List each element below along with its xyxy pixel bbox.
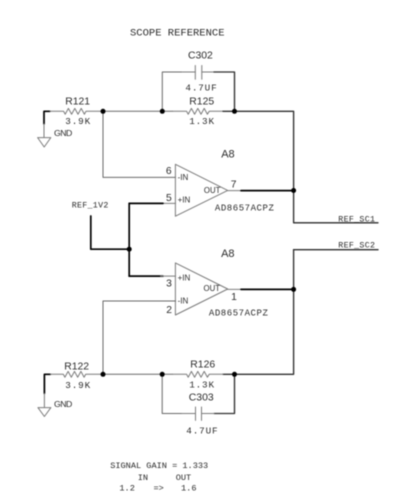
node out1 junction [291, 188, 296, 193]
wire out2 bold [241, 288, 294, 290]
svg-text:+IN: +IN [178, 196, 191, 205]
svg-text:2: 2 [166, 305, 172, 316]
wire feedback net op2 [103, 301, 182, 414]
svg-text:-IN: -IN [178, 296, 189, 305]
resistor R126 [173, 371, 223, 377]
node R121/R125 junction [101, 109, 106, 114]
svg-text:5: 5 [166, 193, 172, 204]
svg-text:AD8657ACPZ: AD8657ACPZ [209, 308, 269, 318]
ground GND1 [38, 124, 51, 147]
svg-text:A8: A8 [221, 248, 234, 260]
svg-text:3.9K: 3.9K [65, 380, 91, 391]
wire output net op1 [214, 72, 378, 223]
resistor R125 [173, 108, 223, 114]
wire feedback net op1 (junction to R125, to pin 6) [103, 72, 182, 177]
svg-text:OUT: OUT [204, 186, 221, 195]
svg-text:1.3K: 1.3K [189, 116, 215, 127]
svg-text:A8: A8 [221, 148, 234, 160]
svg-text:SIGNAL GAIN = 1.333: SIGNAL GAIN = 1.333 [110, 461, 208, 471]
resistor R122 [50, 371, 101, 377]
svg-text:7: 7 [231, 179, 237, 190]
svg-text:R122: R122 [64, 361, 89, 372]
svg-text:R121: R121 [65, 97, 90, 108]
node C303 right [232, 372, 237, 377]
node out2 junction [291, 287, 296, 292]
svg-text:REF_SC1: REF_SC1 [338, 215, 375, 224]
wire GND2 stub [44, 374, 50, 393]
wire GND1 stub [44, 111, 50, 124]
node C302 right [232, 109, 237, 114]
capacitor C303 [182, 407, 214, 420]
svg-text:C303: C303 [189, 393, 214, 404]
node C302 left [160, 109, 165, 114]
svg-text:6: 6 [166, 166, 172, 177]
node REF_1V2 junction [127, 247, 132, 252]
ground GND2 [38, 394, 51, 417]
svg-text:1.2: 1.2 [119, 483, 134, 493]
svg-text:4.7UF: 4.7UF [185, 82, 217, 93]
op-amp U2 triangle [161, 263, 242, 315]
svg-text:3.9K: 3.9K [65, 116, 91, 127]
svg-text:OUT: OUT [176, 473, 191, 483]
wire output net op2 / REF_SC2 [214, 250, 378, 414]
node C303 left [160, 372, 165, 377]
svg-text:GND: GND [54, 128, 72, 138]
capacitor C302 [182, 66, 214, 80]
svg-text:+IN: +IN [178, 274, 191, 283]
svg-text:R125: R125 [189, 96, 214, 107]
wire out1 bold [241, 190, 294, 192]
svg-text:1: 1 [231, 292, 237, 303]
svg-text:OUT: OUT [204, 284, 221, 293]
resistor R121 [50, 108, 101, 114]
svg-text:3: 3 [166, 278, 172, 289]
svg-text:=>: => [154, 483, 164, 493]
svg-text:SCOPE REFERENCE: SCOPE REFERENCE [130, 27, 225, 39]
op-amp U1 triangle [161, 164, 242, 216]
svg-text:4.7UF: 4.7UF [186, 425, 218, 436]
svg-text:C302: C302 [188, 51, 213, 62]
svg-text:GND: GND [54, 399, 72, 409]
svg-text:AD8657ACPZ: AD8657ACPZ [215, 204, 275, 214]
svg-text:1.6: 1.6 [181, 483, 196, 493]
svg-text:R126: R126 [190, 360, 215, 371]
svg-text:IN: IN [138, 473, 148, 483]
svg-text:REF_SC2: REF_SC2 [338, 242, 375, 251]
svg-text:REF_1V2: REF_1V2 [72, 202, 109, 211]
svg-text:1.3K: 1.3K [189, 379, 215, 390]
node R122/R126 junction [101, 372, 106, 377]
svg-text:-IN: -IN [178, 173, 189, 182]
